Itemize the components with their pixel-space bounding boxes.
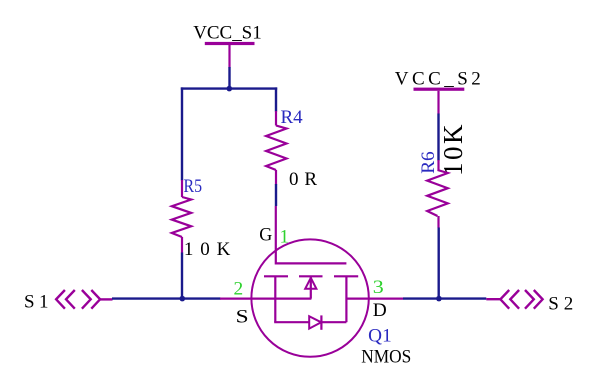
junction right bbox=[436, 296, 442, 302]
port S1 chevron 3 bbox=[82, 290, 91, 309]
transistor Q1 circle bbox=[251, 239, 368, 356]
wire left vertical to R5 bbox=[181, 87, 183, 180]
svg-text:R6: R6 bbox=[418, 151, 439, 174]
wire right vertical to R4 bbox=[275, 87, 277, 111]
transistor Q1 bulk contact bar bbox=[299, 275, 323, 277]
resistor R4 bottom pin bbox=[275, 170, 277, 185]
transistor Q1 drain pin bbox=[346, 298, 403, 300]
port S1 tail bbox=[100, 298, 113, 300]
svg-text:2: 2 bbox=[234, 279, 244, 300]
resistor R5 bottom pin bbox=[181, 237, 183, 253]
port S2 chevron 3 bbox=[525, 290, 534, 309]
svg-text:Q1: Q1 bbox=[368, 325, 392, 346]
svg-text:NMOS: NMOS bbox=[361, 347, 411, 368]
power port VCC_S1 pin stub bbox=[228, 45, 230, 68]
svg-text:D: D bbox=[373, 300, 387, 321]
port S2 chevron 4 bbox=[534, 290, 543, 309]
power port VCC_S1 bar bbox=[205, 42, 255, 45]
svg-text:10K: 10K bbox=[184, 239, 231, 260]
transistor Q1 source contact bar bbox=[264, 275, 288, 277]
resistor R6 body bbox=[427, 170, 448, 216]
wire drain to S2 bbox=[403, 297, 486, 299]
svg-text:VCC_S1: VCC_S1 bbox=[193, 22, 262, 43]
wire VCC_S1 to junction bbox=[228, 67, 230, 89]
junction top bbox=[227, 86, 233, 92]
port S2 chevron 1 bbox=[500, 290, 509, 309]
wire R5 to S1 net bbox=[181, 253, 183, 300]
svg-text:10K: 10K bbox=[438, 124, 468, 176]
port S1 chevron 1 bbox=[56, 290, 65, 309]
junction left bbox=[180, 296, 186, 302]
transistor Q1 body diode cathode bar bbox=[320, 315, 322, 329]
port S1 chevron 2 bbox=[66, 290, 75, 309]
wire R6 to S2 net bbox=[438, 228, 440, 300]
svg-text:1: 1 bbox=[280, 227, 290, 248]
wire R4 to gate bbox=[275, 184, 277, 206]
transistor Q1 gate lead bbox=[276, 206, 347, 263]
wire S1 to source bbox=[112, 297, 221, 299]
transistor Q1 bulk vertical bbox=[310, 277, 312, 299]
svg-text:3: 3 bbox=[373, 277, 384, 298]
svg-text:G: G bbox=[259, 225, 272, 246]
resistor R6 top pin bbox=[437, 160, 439, 170]
port S2 chevron 2 bbox=[510, 290, 519, 309]
port S1 chevron 4 bbox=[91, 290, 100, 309]
resistor R5 top pin bbox=[181, 180, 183, 197]
transistor Q1 bulk arrow bbox=[305, 278, 316, 289]
transistor Q1 drain vertical bbox=[345, 276, 347, 322]
transistor Q1 body diode left wire bbox=[274, 321, 309, 323]
resistor R5 body bbox=[172, 197, 191, 237]
power port VCC_S2 pin stub bbox=[437, 91, 439, 114]
resistor R4 top pin bbox=[275, 111, 277, 126]
resistor R6 bottom pin bbox=[437, 216, 439, 228]
transistor Q1 body diode triangle bbox=[309, 316, 321, 328]
port S2 tail bbox=[486, 298, 500, 300]
resistor R4 body bbox=[266, 126, 286, 171]
svg-text:R5: R5 bbox=[184, 176, 203, 197]
power port VCC_S2 bar bbox=[414, 88, 465, 91]
wire VCC_S2 to R6 bbox=[437, 114, 439, 161]
transistor Q1 source vertical bbox=[274, 276, 276, 322]
svg-text:S: S bbox=[236, 306, 249, 327]
transistor Q1 source pin bbox=[220, 298, 311, 300]
svg-text:R4: R4 bbox=[281, 107, 304, 128]
transistor Q1 drain contact bar bbox=[334, 275, 358, 277]
wire top horizontal bbox=[181, 87, 277, 89]
transistor Q1 body diode right wire bbox=[321, 321, 346, 323]
